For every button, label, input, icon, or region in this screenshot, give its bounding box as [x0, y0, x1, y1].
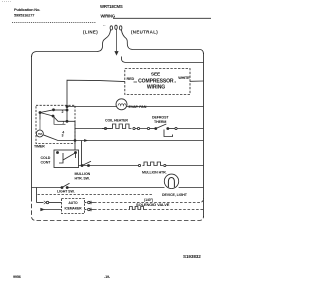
thermostat bracket — [164, 130, 173, 137]
wire: mullion row from branch — [79, 165, 139, 167]
svg-text:SOLENOID VALVE: SOLENOID VALVE — [136, 202, 170, 207]
auto icemaker box (dashed) — [62, 199, 85, 214]
solenoid coil — [129, 207, 145, 210]
svg-text:MULLION HTR.: MULLION HTR. — [142, 171, 167, 175]
lamp: device light — [164, 174, 178, 188]
svg-text:THERM: THERM — [154, 120, 166, 124]
right rail — [203, 53, 205, 217]
mullion heater switch — [81, 165, 83, 167]
label DEFROST THERM — [152, 116, 169, 125]
power plug prongs — [110, 26, 112, 30]
evap fan motor — [116, 99, 127, 110]
defrost timer box (dashed) — [36, 105, 75, 143]
wire: compressor to neutral rail — [190, 80, 204, 82]
svg-text:9956: 9956 — [13, 275, 21, 279]
svg-text:COIL HEATER: COIL HEATER — [105, 119, 128, 123]
icemaker accessory dashed wire — [38, 194, 153, 196]
defrost thermostat switch — [155, 128, 157, 130]
icemaker output connector row 1 — [85, 202, 87, 204]
svg-text:DEVICE, LIGHT: DEVICE, LIGHT — [162, 193, 188, 197]
svg-text:SEE: SEE — [151, 71, 161, 77]
connector — [138, 164, 140, 166]
timer interior bracket — [54, 116, 66, 124]
icemaker row 1 — [37, 202, 44, 204]
connector — [44, 201, 46, 204]
ground lead and arrow — [116, 30, 118, 52]
icemaker output connector row 2 — [85, 209, 87, 211]
connector — [104, 127, 106, 129]
svg-text:WHITE: WHITE — [178, 76, 190, 80]
connector — [147, 127, 149, 129]
timer switch pivot and arms — [39, 112, 41, 114]
header publication number text — [14, 7, 40, 18]
water solenoid row 2 (dashed) — [94, 209, 204, 211]
branch to mullion switch — [81, 141, 83, 166]
wire label dashes — [134, 81, 177, 83]
header model number text — [100, 4, 123, 19]
svg-text:WIRING: WIRING — [147, 85, 165, 91]
icemaker feed vertical — [36, 188, 38, 203]
timer terminal 3 wire to neutral rail — [43, 135, 203, 141]
svg-text:3: 3 — [62, 134, 64, 138]
timer motor TM — [36, 130, 43, 137]
timer motor feed wire — [39, 120, 41, 130]
connector pair — [133, 127, 135, 129]
label COLD CONT — [41, 156, 52, 165]
svg-text:TIMER: TIMER — [34, 144, 45, 148]
svg-text:Publication No.: Publication No. — [14, 7, 40, 12]
connector — [164, 164, 166, 166]
svg-text:WIRING: WIRING — [101, 14, 115, 19]
wire to rail with connector — [168, 128, 175, 130]
water solenoid row 1 (dashed) — [94, 198, 204, 203]
wire: second top line to right rail — [122, 57, 204, 63]
junction dot — [66, 106, 68, 108]
svg-text:5995316277: 5995316277 — [14, 13, 35, 18]
resistor: mullion heater — [143, 162, 164, 166]
timer terminal 1 wire to cold control — [53, 116, 75, 150]
svg-text:WRT18CMS: WRT18CMS — [100, 4, 123, 9]
svg-text:-19-: -19- — [104, 275, 111, 279]
svg-text:AUTO: AUTO — [68, 201, 78, 205]
svg-text:ICEMAKER: ICEMAKER — [65, 206, 83, 210]
timer terminal 4 wire to defrost heater row — [75, 128, 112, 130]
cold control contacts — [57, 152, 59, 154]
cold control box — [54, 150, 79, 168]
svg-text:S193832: S193832 — [183, 254, 201, 259]
wire: compressor feed from timer — [67, 80, 125, 121]
svg-text:TM: TM — [38, 132, 43, 136]
svg-text:1: 1 — [62, 120, 64, 124]
bottom dashed return wire — [32, 197, 204, 221]
wire: line side from plug to left rail — [32, 30, 111, 57]
svg-text:2: 2 — [62, 110, 64, 114]
label MULLION HTR. SW. — [75, 172, 91, 181]
header dotted rule — [12, 22, 96, 24]
icemaker row 2 with arrow terminal — [44, 209, 62, 211]
wire: light row — [32, 187, 62, 189]
header tiny dots — [103, 25, 106, 27]
svg-text:HTR. SW.: HTR. SW. — [75, 177, 90, 181]
header rule line — [113, 17, 211, 19]
wire to rail — [166, 165, 204, 167]
svg-text:(LINE): (LINE) — [83, 30, 98, 35]
svg-text:CONT: CONT — [41, 161, 52, 165]
svg-text:DEFROST: DEFROST — [152, 116, 169, 120]
svg-text:RED: RED — [127, 77, 135, 81]
light switch — [61, 187, 63, 189]
svg-text:EVAP. FAN: EVAP. FAN — [129, 105, 147, 109]
timer terminal 2 wire — [54, 109, 68, 111]
compressor box (dashed) — [125, 69, 190, 95]
label (140) SOLENOID VALVE — [136, 198, 170, 207]
svg-text:COLD: COLD — [41, 156, 51, 160]
wire: neutral side from plug to right rail — [121, 30, 203, 54]
svg-text:(NEUTRAL): (NEUTRAL) — [131, 30, 158, 35]
wire join arrow — [84, 139, 87, 142]
resistor: defrost coil heater — [112, 124, 132, 129]
left rail — [31, 56, 33, 197]
svg-text:LIGHT SW.: LIGHT SW. — [57, 190, 75, 194]
svg-text:MULLION: MULLION — [75, 172, 91, 176]
wire: evap fan row — [67, 106, 204, 108]
wire: defrost heater row lead — [102, 128, 104, 130]
